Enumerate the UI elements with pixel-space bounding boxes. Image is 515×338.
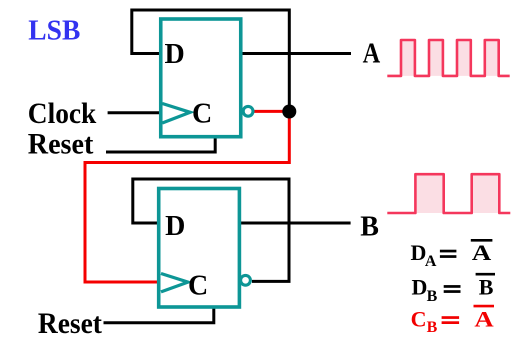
svg-text:D: D xyxy=(412,275,428,300)
svg-text:A: A xyxy=(472,240,492,265)
svg-text:B: B xyxy=(427,319,438,336)
svg-text:C: C xyxy=(192,99,212,130)
svg-text:B: B xyxy=(360,211,379,242)
wire U2 output Q to B xyxy=(239,222,350,225)
U1 clock triangle xyxy=(162,104,190,124)
svg-text:D: D xyxy=(165,211,185,242)
U2 inverted output bubble xyxy=(241,275,251,285)
U2 clock triangle xyxy=(161,274,188,292)
wire U1 output Q to A xyxy=(241,52,351,55)
svg-text:C: C xyxy=(411,307,427,332)
svg-text:A: A xyxy=(474,307,493,332)
svg-text:Reset: Reset xyxy=(28,128,94,161)
wire reset to U1 xyxy=(106,136,215,153)
waveform A xyxy=(387,40,509,76)
wire U1 Qbar to node (red) xyxy=(253,110,290,113)
flip-flop U2 (bottom D flip-flop) xyxy=(159,189,240,308)
wire node to U2 clock C (red) xyxy=(85,112,289,283)
flip-flop U1 (top D flip-flop) xyxy=(161,19,241,137)
svg-text:B: B xyxy=(479,275,494,300)
svg-text:Clock: Clock xyxy=(28,97,97,130)
svg-text:LSB: LSB xyxy=(28,14,80,46)
wire U2 Qbar feedback to D input xyxy=(133,179,289,281)
equation D_A = A-bar xyxy=(411,240,493,270)
wire clock input to U1 xyxy=(108,111,161,114)
svg-text:C: C xyxy=(188,271,208,302)
waveform B xyxy=(387,174,510,213)
equation C_B = A-bar (red) xyxy=(411,306,494,336)
wire reset to U2 xyxy=(104,306,214,323)
equation D_B = B-bar xyxy=(412,274,496,305)
svg-text:A: A xyxy=(363,39,381,70)
node junction at U1 Qbar xyxy=(282,105,296,119)
svg-text:A: A xyxy=(425,253,437,270)
wire U1 Qbar feedback to D input xyxy=(132,10,289,112)
svg-text:Reset: Reset xyxy=(38,307,102,338)
U1 inverted output bubble xyxy=(243,106,253,116)
svg-text:B: B xyxy=(427,288,438,305)
svg-text:D: D xyxy=(165,39,185,70)
